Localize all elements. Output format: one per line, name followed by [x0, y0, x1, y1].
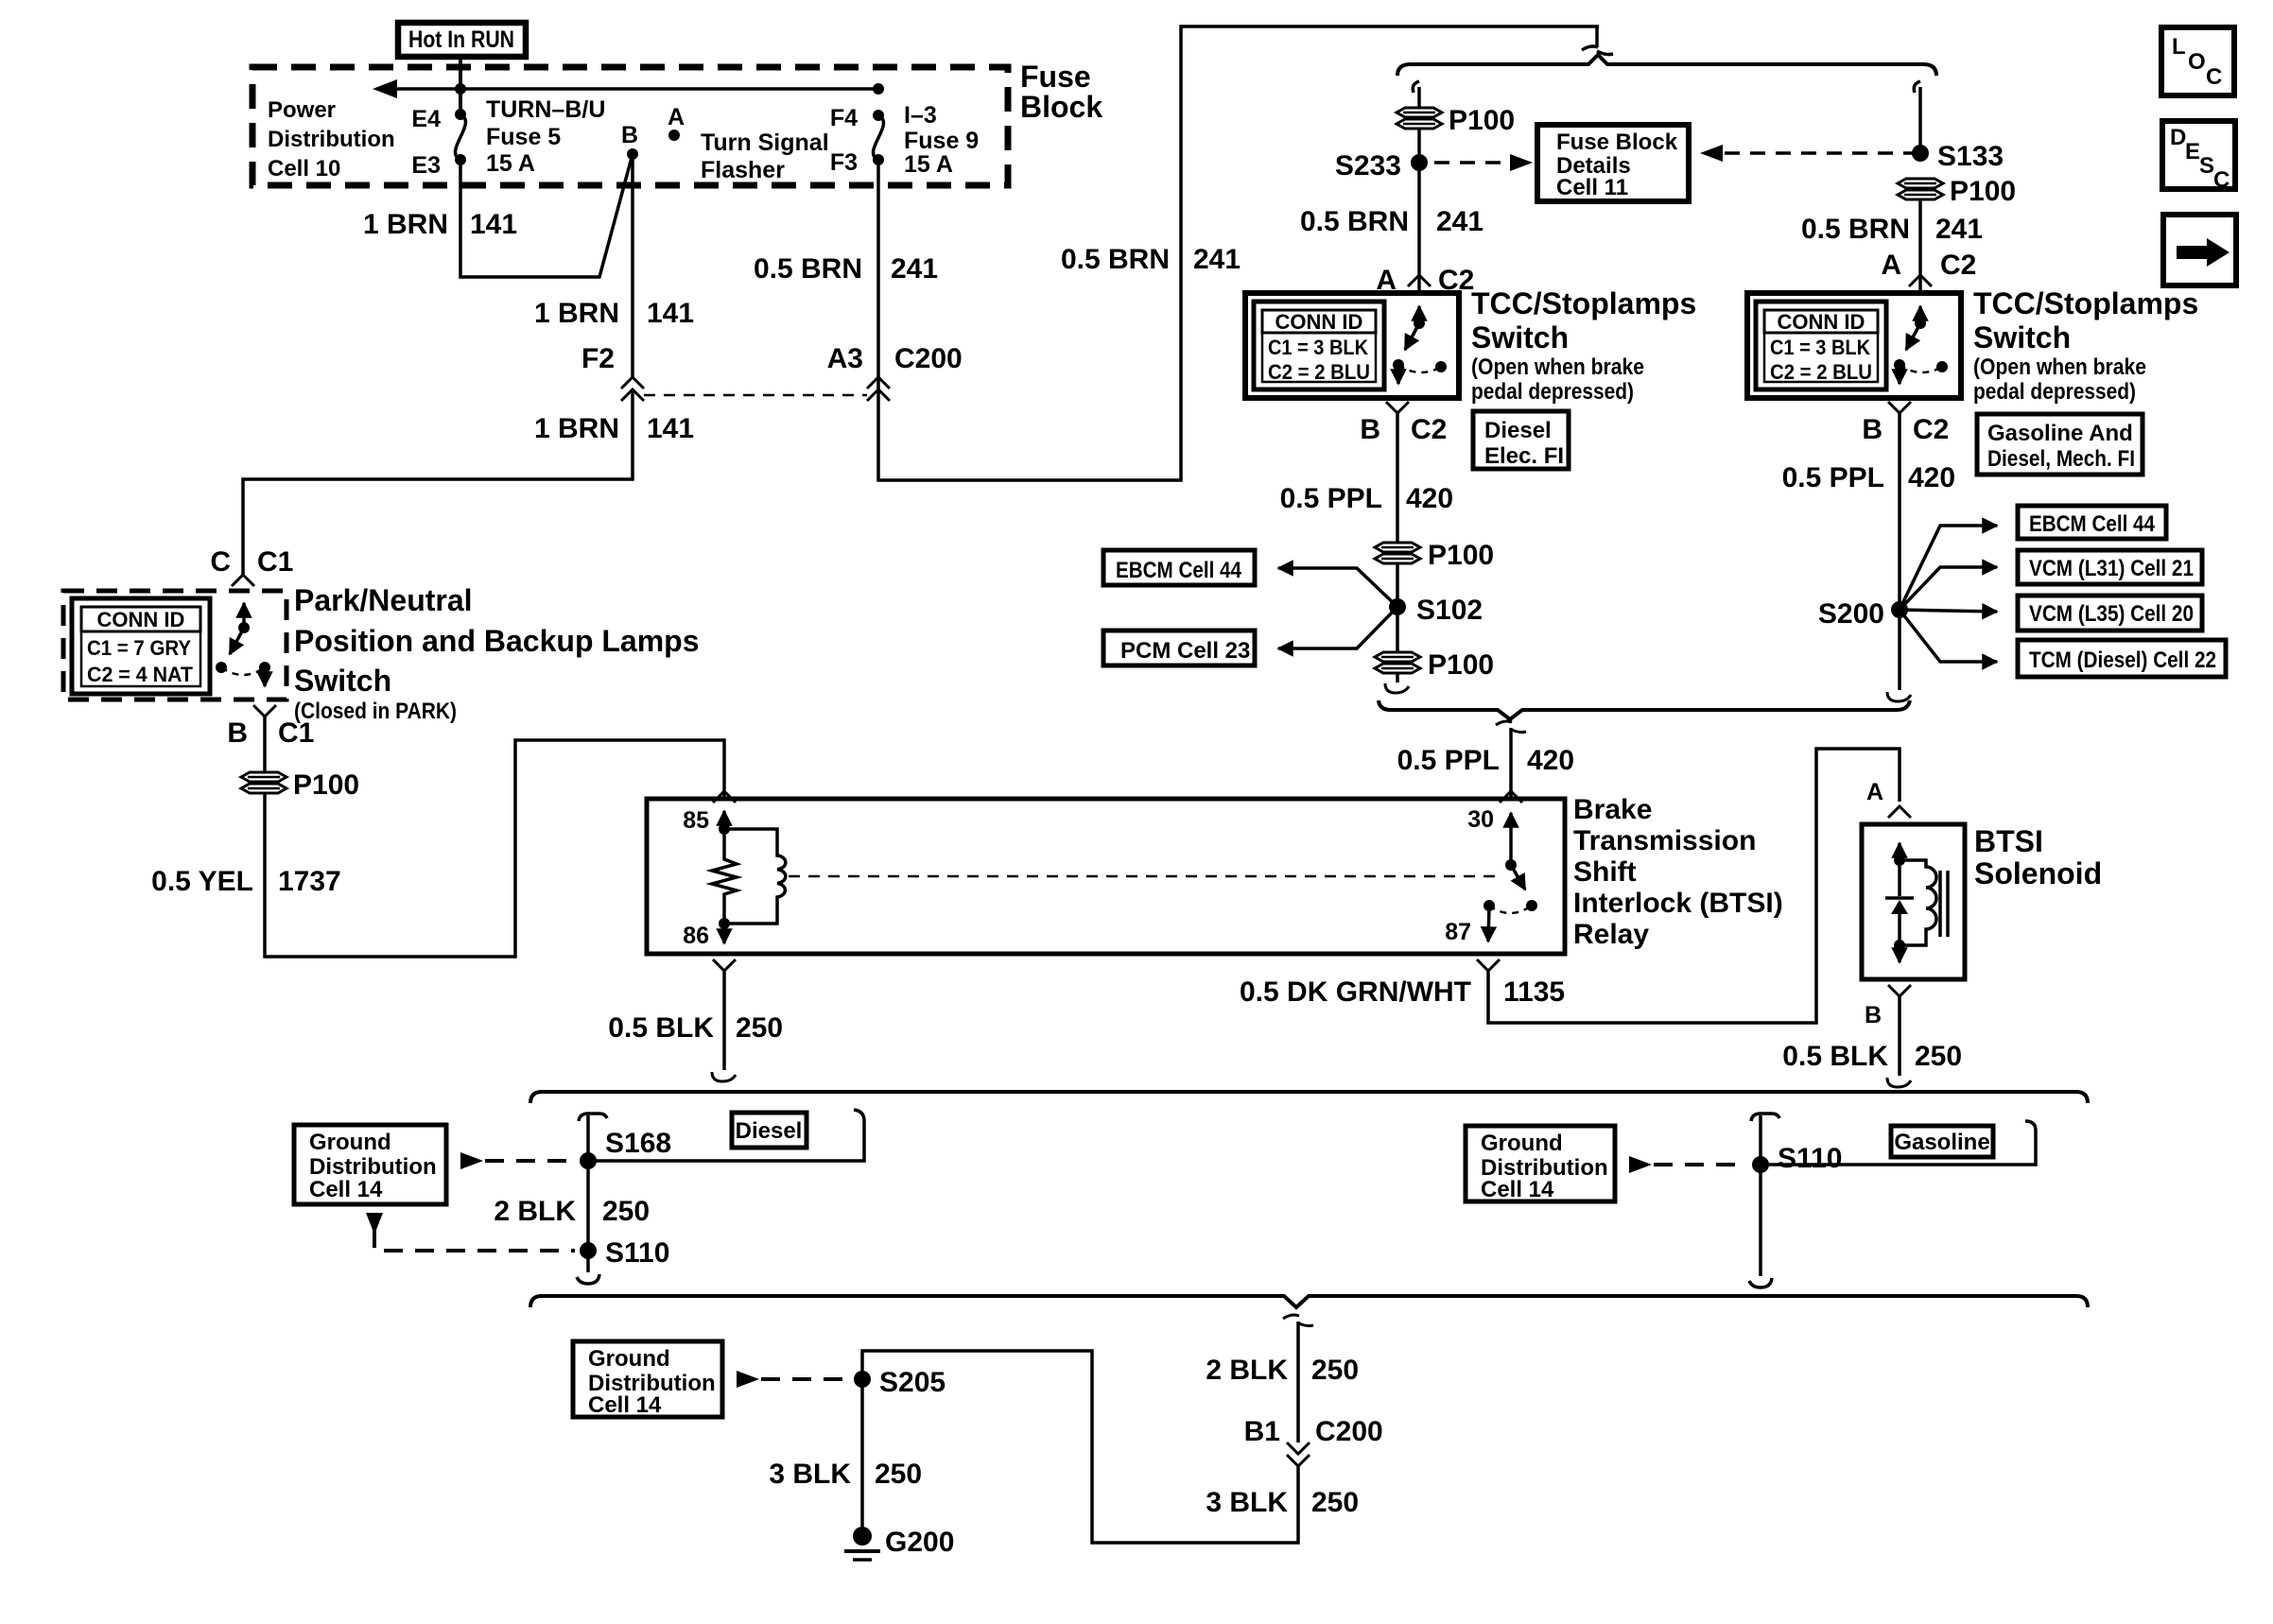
svg-text:C: C: [2206, 64, 2222, 90]
svg-text:0.5 BLK: 0.5 BLK: [608, 1012, 714, 1044]
svg-text:D: D: [2170, 125, 2186, 150]
CONN ID table (right TCC): [1756, 302, 1886, 389]
right TCC switch contacts: [1894, 306, 1948, 384]
Fuse Block Details Cell 11 reference box: [1537, 125, 1689, 201]
pin A (BTSI solenoid): [1866, 779, 1911, 818]
wire relay 86 to ground bus: [712, 959, 736, 1081]
ground bus bracket lower with pickup: [530, 1296, 2088, 1307]
PCM Cell 23 reference box: [1103, 631, 1255, 665]
pin B / connector C2 (right TCC out): [1862, 414, 1949, 445]
svg-text:Cell 11: Cell 11: [1556, 175, 1628, 200]
wire S200 branch to bus bracket: [1887, 618, 1911, 701]
svg-text:S110: S110: [605, 1237, 669, 1269]
chevron at left TCC output B: [1386, 402, 1409, 413]
dashed reference to S168: [460, 1152, 575, 1169]
svg-text:Transmission: Transmission: [1573, 825, 1756, 856]
wire 3 BLK 250 to S205: [862, 1351, 1298, 1543]
ground G200: [844, 1527, 954, 1560]
pin A3 / connector C200: [827, 343, 963, 374]
svg-text:250: 250: [602, 1196, 650, 1227]
turn signal flasher pins A B: [621, 104, 829, 183]
wire 0.5 DK GRN/WHT 1135 relay 87 to BTSI solenoid A: [1477, 749, 1900, 1023]
svg-text:E: E: [2185, 139, 2200, 164]
solenoid coil winding: [1900, 860, 1936, 945]
svg-text:Solenoid: Solenoid: [1974, 856, 2102, 890]
svg-text:2 BLK: 2 BLK: [1206, 1355, 1288, 1386]
wire Hot In RUN to fuse E4: [459, 57, 462, 114]
svg-text:Flasher: Flasher: [701, 157, 785, 183]
svg-text:Ground: Ground: [309, 1130, 391, 1155]
chevron at right TCC input: [1909, 275, 1932, 286]
svg-text:S102: S102: [1416, 595, 1483, 626]
Gasoline tag box: [1891, 1126, 1993, 1157]
label 0.5 BRN 241 (riser): [1061, 244, 1241, 275]
svg-text:0.5 PPL: 0.5 PPL: [1280, 483, 1382, 514]
svg-text:Cell 10: Cell 10: [268, 156, 340, 181]
svg-text:B: B: [1865, 1002, 1882, 1028]
svg-text:TURN–B/U: TURN–B/U: [486, 96, 605, 123]
svg-text:S200: S200: [1818, 598, 1884, 630]
VCM (L35) Cell 20 reference box: [2018, 596, 2202, 631]
label 0.5 YEL 1737: [151, 866, 341, 897]
DESC nav box: [2162, 121, 2235, 193]
ground drop S110 (gasoline): [1749, 1114, 1779, 1287]
svg-text:B: B: [1360, 414, 1380, 445]
dashed reference to S110 (gasoline): [1629, 1156, 1747, 1173]
svg-text:141: 141: [647, 298, 694, 329]
Hot In RUN power tag: [398, 23, 526, 57]
wire BTSI B to ground bus: [1887, 996, 1911, 1087]
svg-text:pedal depressed): pedal depressed): [1973, 379, 2136, 405]
svg-text:141: 141: [470, 209, 517, 240]
diesel branch from S168: [588, 1110, 864, 1161]
svg-text:B: B: [227, 717, 248, 749]
relay pin 30: [1467, 806, 1517, 871]
svg-text:420: 420: [1406, 483, 1453, 514]
svg-text:E4: E4: [411, 106, 441, 132]
arrow S102 to PCM: [1278, 607, 1397, 648]
EBCM Cell 44 reference box (right): [2018, 506, 2166, 539]
svg-text:Cell 14: Cell 14: [588, 1392, 662, 1418]
connector C200 chevrons at F2: [621, 377, 644, 401]
ground bus bracket upper: [530, 1092, 2088, 1103]
svg-text:C2: C2: [1940, 250, 1976, 281]
svg-text:TCM (Diesel) Cell 22: TCM (Diesel) Cell 22: [2029, 648, 2216, 673]
label 3 BLK 250 (right): [1206, 1487, 1359, 1518]
pin C / connector C1: [210, 546, 293, 578]
svg-text:pedal depressed): pedal depressed): [1471, 379, 1634, 405]
Diesel tag box: [732, 1113, 807, 1148]
pin B1 / connector C200: [1244, 1416, 1383, 1447]
relay switch contacts: [1484, 900, 1537, 913]
connector P100 (below S102): [1375, 649, 1494, 681]
svg-text:1 BRN: 1 BRN: [534, 413, 619, 444]
splice S205: [854, 1367, 946, 1398]
svg-text:1737: 1737: [278, 866, 341, 897]
svg-text:85: 85: [683, 807, 709, 834]
BTSI solenoid input arrow: [1894, 843, 1905, 866]
park switch contact symbol: [216, 603, 270, 686]
svg-text:250: 250: [1311, 1487, 1359, 1518]
left TCC switch contacts: [1393, 306, 1447, 384]
svg-text:Block: Block: [1020, 90, 1102, 124]
wire 3 BLK 250 S205 to G200: [860, 1379, 864, 1529]
svg-text:Brake: Brake: [1573, 794, 1652, 825]
TCC/Stoplamps switch box (diesel): [1245, 293, 1459, 398]
break symbol below lower bracket: [1283, 1315, 1313, 1326]
label 0.5 BLK 250 (relay): [608, 1012, 783, 1044]
Ground Distribution Cell 14 box (gasoline): [1466, 1126, 1615, 1202]
label 0.5 BRN 241 (S133 branch): [1801, 214, 1983, 245]
Ground Distribution Cell 14 box (diesel): [294, 1125, 446, 1204]
label 1 BRN 141 upper: [363, 209, 517, 240]
svg-text:C1 = 7 GRY: C1 = 7 GRY: [87, 636, 191, 660]
svg-text:420: 420: [1527, 745, 1574, 776]
svg-text:C: C: [210, 546, 231, 578]
label Park/Neutral Position and Backup Lamps Switch: [294, 583, 700, 724]
splice S233: [1335, 150, 1428, 181]
svg-text:E3: E3: [411, 152, 441, 179]
svg-text:A: A: [1866, 779, 1883, 805]
junction at Hot In RUN feed: [455, 83, 466, 95]
svg-text:C1 = 3 BLK: C1 = 3 BLK: [1770, 336, 1870, 359]
label 0.5 PPL 420 (left): [1280, 483, 1453, 514]
pin A / connector C2 (right TCC): [1881, 250, 1976, 281]
relay coil resistor: [712, 829, 737, 924]
svg-text:0.5 BRN: 0.5 BRN: [754, 253, 862, 285]
wire park switch B to P100: [263, 717, 267, 772]
svg-text:EBCM Cell 44: EBCM Cell 44: [2029, 511, 2156, 537]
dashed reference S233 to fuse block details: [1434, 154, 1533, 171]
svg-text:Switch: Switch: [294, 664, 391, 698]
svg-text:1135: 1135: [1503, 976, 1565, 1008]
svg-text:F3: F3: [830, 149, 858, 176]
TCC/Stoplamps switch box (gasoline): [1747, 293, 1961, 398]
svg-text:Fuse: Fuse: [1020, 60, 1091, 94]
dashed reference S133 to fuse block details: [1700, 145, 1914, 162]
dashed reference to S205: [737, 1371, 849, 1388]
dashed reference to S110 (left): [374, 1229, 575, 1251]
connector C200 chevrons (bottom): [1287, 1443, 1310, 1466]
svg-text:Hot In RUN: Hot In RUN: [408, 26, 514, 53]
svg-text:Gasoline And: Gasoline And: [1987, 421, 2133, 446]
label 2 BLK 250 (left drop): [494, 1196, 650, 1227]
chevron at relay pin 30: [1500, 791, 1522, 803]
wire S102 branch to bus bracket: [1385, 673, 1409, 693]
svg-text:S233: S233: [1335, 150, 1401, 181]
connector C200 dashed tie line: [644, 394, 867, 397]
chevron at park switch B output: [253, 705, 276, 717]
label 0.5 PPL 420 (right): [1782, 462, 1955, 493]
label Brake Transmission Shift Interlock (BTSI) Relay: [1573, 794, 1783, 950]
svg-text:C2 = 2 BLU: C2 = 2 BLU: [1268, 360, 1370, 384]
svg-text:Distribution: Distribution: [309, 1154, 437, 1180]
CONN ID table (left TCC): [1254, 302, 1384, 389]
splice S133: [1912, 141, 2004, 172]
svg-text:250: 250: [1915, 1041, 1962, 1072]
ground drop S168/S110 (diesel): [577, 1114, 607, 1284]
chevron at park switch C1 input: [232, 575, 254, 586]
svg-text:0.5 DK GRN/WHT: 0.5 DK GRN/WHT: [1240, 976, 1471, 1008]
svg-text:Power: Power: [268, 97, 336, 123]
svg-text:C200: C200: [894, 343, 963, 374]
connector P100 (park switch branch): [241, 769, 359, 801]
svg-text:Diesel: Diesel: [736, 1118, 803, 1144]
svg-text:Ground: Ground: [1481, 1131, 1563, 1156]
Diesel Elec. FI note box: [1473, 411, 1569, 469]
pin F3: [830, 149, 884, 176]
svg-text:S110: S110: [1778, 1143, 1842, 1174]
svg-text:Cell 14: Cell 14: [1481, 1177, 1554, 1202]
label 0.5 DK GRN/WHT 1135: [1240, 976, 1565, 1008]
relay switch arm: [1511, 865, 1525, 890]
bus bracket (top): [1397, 55, 1936, 76]
pin A / connector C2 (left TCC): [1376, 265, 1474, 296]
svg-text:P100: P100: [1449, 105, 1515, 136]
svg-text:B: B: [621, 122, 638, 148]
connector P100 (above S102): [1375, 540, 1494, 571]
wire 0.5 PPL 420 to relay pin 30: [1509, 728, 1513, 799]
label 0.5 BRN 241 (S233 branch): [1300, 206, 1484, 237]
svg-text:PCM Cell 23: PCM Cell 23: [1120, 638, 1250, 664]
svg-text:VCM (L31) Cell 21: VCM (L31) Cell 21: [2029, 556, 2194, 581]
chevron at relay pin 85: [713, 791, 736, 803]
svg-text:P100: P100: [293, 769, 359, 801]
arrow S102 to EBCM: [1278, 568, 1397, 607]
label Fuse 9: [904, 102, 979, 178]
chevron at left TCC input: [1408, 275, 1431, 286]
svg-text:Distribution: Distribution: [268, 127, 395, 152]
svg-text:0.5 BRN: 0.5 BRN: [1300, 206, 1409, 237]
label BTSI Solenoid: [1974, 824, 2102, 890]
svg-text:C2: C2: [1411, 414, 1447, 445]
svg-text:Interlock (BTSI): Interlock (BTSI): [1573, 888, 1783, 919]
solenoid core lines: [1940, 871, 1948, 937]
svg-text:C2: C2: [1913, 414, 1949, 445]
svg-text:Turn Signal: Turn Signal: [701, 130, 829, 156]
chevron at right TCC output B: [1888, 402, 1911, 413]
BTSI solenoid box: [1862, 824, 1965, 979]
fuse F5 TURN-B/U 15A: [456, 114, 466, 160]
break symbol to bus bracket: [1582, 26, 1613, 55]
svg-text:P100: P100: [1950, 176, 2016, 207]
svg-text:C1: C1: [278, 717, 314, 749]
svg-text:VCM (L35) Cell 20: VCM (L35) Cell 20: [2029, 601, 2194, 627]
svg-text:I–3: I–3: [904, 102, 937, 129]
svg-text:Park/Neutral: Park/Neutral: [294, 583, 473, 617]
svg-text:Cell 14: Cell 14: [309, 1177, 383, 1202]
TCM (Diesel) Cell 22 reference box: [2018, 640, 2226, 677]
splice S200: [1818, 598, 1908, 630]
wire 1 BRN 141 from E3 to flasher B: [460, 154, 633, 277]
svg-text:O: O: [2188, 49, 2206, 75]
svg-text:Switch: Switch: [1973, 320, 2071, 354]
pin E3: [411, 152, 466, 179]
svg-text:241: 241: [1193, 244, 1241, 275]
label 3 BLK 250 (G200 drop): [769, 1459, 922, 1490]
svg-text:141: 141: [647, 413, 694, 444]
svg-text:1 BRN: 1 BRN: [534, 298, 619, 329]
BTSI relay box: [647, 799, 1565, 954]
relay pin 87: [1445, 906, 1489, 945]
svg-text:C1 = 3 BLK: C1 = 3 BLK: [1268, 336, 1368, 359]
svg-text:Diesel: Diesel: [1484, 418, 1552, 443]
arrow S200 to TCM: [1900, 610, 1997, 662]
svg-text:241: 241: [1436, 206, 1484, 237]
label 2 BLK 250 (bottom): [1206, 1355, 1359, 1386]
svg-text:B1: B1: [1244, 1416, 1280, 1447]
pin B / connector C2 (left TCC out): [1360, 414, 1447, 445]
svg-text:EBCM Cell 44: EBCM Cell 44: [1116, 558, 1242, 583]
svg-text:0.5 BRN: 0.5 BRN: [1801, 214, 1910, 245]
EBCM Cell 44 reference box (left): [1103, 550, 1255, 585]
label Fuse 5: [486, 96, 605, 177]
BTSI solenoid output arrow: [1894, 940, 1905, 962]
wire 1 BRN 141 from connector to park/neutral switch C: [243, 389, 633, 575]
label 1 BRN 141 mid: [534, 298, 694, 329]
svg-text:0.5 BRN: 0.5 BRN: [1061, 244, 1170, 275]
LOC nav box: [2161, 27, 2234, 95]
svg-text:250: 250: [875, 1459, 922, 1490]
label 1 BRN 141 lower: [534, 413, 694, 444]
next-page arrow box: [2163, 215, 2236, 285]
svg-text:C200: C200: [1315, 1416, 1383, 1447]
splice S110 (gasoline): [1752, 1143, 1842, 1174]
svg-text:250: 250: [1311, 1355, 1359, 1386]
svg-text:CONN ID: CONN ID: [1778, 310, 1865, 334]
svg-text:TCC/Stoplamps: TCC/Stoplamps: [1471, 286, 1696, 320]
arrow S200 to VCM L31: [1900, 567, 1997, 610]
svg-text:(Closed in PARK): (Closed in PARK): [294, 699, 457, 724]
svg-text:CONN ID: CONN ID: [1275, 310, 1363, 334]
svg-text:A: A: [1881, 250, 1901, 281]
wire bracket to S233: [1413, 81, 1419, 108]
wire 0.5 YEL 1737 to BTSI relay coil 85: [265, 740, 724, 957]
svg-text:C2 = 2 BLU: C2 = 2 BLU: [1770, 360, 1872, 384]
fuse F9 I-3 15A: [874, 115, 884, 160]
svg-text:BTSI: BTSI: [1974, 824, 2043, 858]
wire 1 BRN 141 from flasher B down to connector F2: [631, 154, 634, 377]
label 0.5 BRN 241 (below fuse block): [754, 253, 938, 285]
arrow S200 to EBCM: [1900, 526, 1997, 610]
svg-text:3 BLK: 3 BLK: [769, 1459, 851, 1490]
svg-text:Elec. FI: Elec. FI: [1484, 443, 1564, 469]
label TCC/Stoplamps Switch (left): [1471, 286, 1696, 405]
svg-text:Fuse Block: Fuse Block: [1556, 130, 1678, 155]
svg-text:Gasoline: Gasoline: [1894, 1130, 1989, 1155]
svg-text:Fuse 9: Fuse 9: [904, 128, 979, 154]
svg-text:15 A: 15 A: [904, 151, 953, 178]
svg-text:P100: P100: [1428, 649, 1494, 681]
wire P100 to TCC switch A: [1417, 129, 1421, 291]
svg-text:F4: F4: [830, 105, 858, 131]
break symbol below bracket: [1496, 721, 1526, 733]
wire 0.5 PPL 420 left TCC B to S102: [1396, 413, 1399, 542]
svg-text:G200: G200: [885, 1527, 954, 1558]
connector P100 (S233 branch): [1397, 105, 1515, 136]
splice S110 (left): [580, 1237, 669, 1269]
arrow down from ground box: [366, 1213, 383, 1235]
svg-text:P100: P100: [1428, 540, 1494, 571]
label 0.5 PPL 420 (relay feed): [1397, 745, 1574, 776]
svg-text:B: B: [1862, 414, 1883, 445]
relay actuation dashed link: [789, 875, 1503, 878]
svg-text:S133: S133: [1937, 141, 2004, 172]
pin E4: [411, 106, 466, 132]
svg-text:A3: A3: [827, 343, 863, 374]
svg-text:30: 30: [1467, 806, 1494, 833]
gasoline branch from S110: [1761, 1121, 2036, 1165]
junction at Fuse 9 feed: [873, 83, 884, 95]
label Fuse Block: [1020, 60, 1102, 124]
arrow S200 to VCM L35: [1900, 610, 1997, 612]
relay coil winding: [724, 829, 786, 924]
pin F4: [830, 105, 884, 131]
diode (BTSI solenoid): [1885, 860, 1914, 945]
label 0.5 BLK 250 (solenoid): [1782, 1041, 1962, 1072]
svg-text:Position and Backup Lamps: Position and Backup Lamps: [294, 624, 700, 658]
svg-text:TCC/Stoplamps: TCC/Stoplamps: [1973, 286, 2198, 320]
svg-text:Shift: Shift: [1573, 856, 1637, 888]
splice S168: [580, 1128, 671, 1169]
wire 0.5 BRN 241 from fuse F3 to stoplamp bus: [878, 26, 1599, 480]
svg-text:S: S: [2199, 153, 2214, 179]
svg-text:86: 86: [683, 923, 709, 949]
wire 0.5 PPL 420 right TCC B to S200: [1898, 413, 1901, 610]
svg-text:0.5 PPL: 0.5 PPL: [1397, 745, 1500, 776]
svg-text:250: 250: [736, 1012, 783, 1044]
connector P100 (S133 branch): [1898, 176, 2016, 207]
svg-text:(Open when brake: (Open when brake: [1471, 354, 1644, 380]
svg-text:0.5 BLK: 0.5 BLK: [1782, 1041, 1888, 1072]
svg-text:1 BRN: 1 BRN: [363, 209, 448, 240]
fuse block dashed border: [252, 67, 1008, 185]
svg-text:3 BLK: 3 BLK: [1206, 1487, 1288, 1518]
svg-text:87: 87: [1445, 919, 1471, 945]
wire bus inside fuse block with left arrow: [373, 79, 878, 98]
relay pin 86: [683, 918, 730, 949]
svg-text:Diesel, Mech. FI: Diesel, Mech. FI: [1987, 446, 2135, 472]
pin B (BTSI solenoid): [1865, 985, 1911, 1028]
bus bracket (0.5 PPL collector): [1379, 700, 1910, 719]
svg-text:C1: C1: [257, 546, 293, 578]
svg-text:Switch: Switch: [1471, 320, 1569, 354]
CONN ID table (park switch): [72, 598, 210, 694]
label TCC/Stoplamps Switch (right): [1973, 286, 2198, 405]
svg-text:L: L: [2172, 34, 2186, 60]
splice S102: [1389, 595, 1483, 626]
svg-text:2 BLK: 2 BLK: [494, 1196, 576, 1227]
Ground Distribution Cell 14 box (bottom): [573, 1341, 722, 1418]
wire 2 BLK 250 to connector C200: [1296, 1322, 1300, 1443]
park/neutral switch dashed box: [63, 591, 286, 700]
connector C200 chevrons at A3: [867, 377, 890, 401]
svg-text:CONN ID: CONN ID: [97, 608, 185, 631]
relay pin 85: [683, 807, 730, 835]
wire bracket to S133: [1914, 81, 1920, 153]
svg-text:0.5 YEL: 0.5 YEL: [151, 866, 253, 897]
svg-text:Ground: Ground: [588, 1346, 670, 1372]
svg-text:Fuse 5: Fuse 5: [486, 124, 561, 150]
VCM (L31) Cell 21 reference box: [2018, 550, 2202, 584]
pin B / connector C1: [227, 717, 314, 749]
svg-text:C: C: [2213, 167, 2230, 193]
svg-text:0.5 PPL: 0.5 PPL: [1782, 462, 1884, 493]
svg-text:15 A: 15 A: [486, 150, 535, 177]
Gasoline And Diesel, Mech. FI note box: [1977, 414, 2143, 475]
wire P100 to right TCC switch A: [1918, 199, 1922, 291]
svg-text:241: 241: [1935, 214, 1983, 245]
